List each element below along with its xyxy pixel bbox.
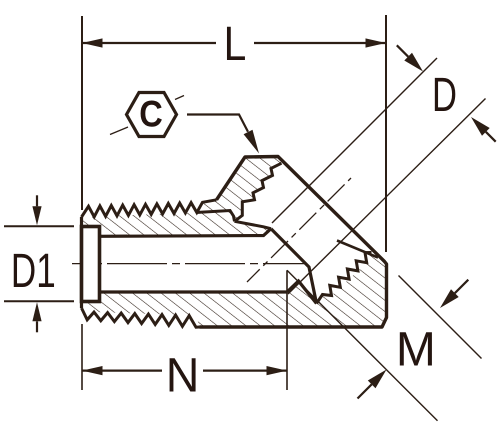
bore top line [100,229,272,237]
leader from hex to body [187,115,248,132]
label L [224,18,247,71]
hatch top wall [83,211,271,237]
D extension line B [288,99,486,295]
male thread top zigzag [82,200,217,217]
N extension line left [81,324,83,390]
label D [432,67,457,121]
hexagon axis line [110,127,128,135]
D arrow lower [471,117,490,136]
svg-text:N: N [166,349,200,403]
branch outline and right side [200,157,387,328]
M extension line 2 [287,270,438,421]
D1 extension line bottom [4,300,74,302]
D1 arrow up [32,302,41,321]
port mouth chamfer [337,241,378,258]
D arrow upper [404,53,423,72]
label N [166,349,200,403]
M arrow lower [368,370,387,389]
hatch bottom wall [83,253,386,327]
D1 extension line top [4,225,74,227]
bore bottom line [100,290,288,293]
port seat diagonal [271,229,317,304]
seat jaw line [235,221,272,228]
body outline: end face [80,217,83,308]
bore bottom ridge [287,281,317,304]
M extension line 1 [399,276,482,359]
L dimension line [82,42,216,44]
label D1 [11,243,56,297]
female thread left zigzag [235,163,282,221]
N dimension line [82,370,162,372]
label C [139,94,163,135]
M arrow upper [440,289,459,308]
hatch branch left band [196,157,282,221]
branch axis centerline [247,178,351,282]
male thread bottom zigzag [82,308,200,327]
svg-text:D: D [432,67,457,121]
wire L extension line left [81,16,83,210]
svg-text:D1: D1 [11,243,56,297]
hexagon C symbol [127,93,177,137]
counterbore rectangle [82,227,100,302]
label M [396,323,436,376]
svg-text:M: M [396,323,436,376]
D extension line A [272,58,437,223]
svg-text:L: L [224,18,247,71]
thread root shelf [196,211,235,222]
main centerline [72,263,306,265]
D1 arrow down [32,206,41,225]
female thread right zigzag [317,253,372,304]
wire L extension line right [385,15,387,252]
svg-text:C: C [139,94,163,135]
N extension line right [286,270,288,390]
